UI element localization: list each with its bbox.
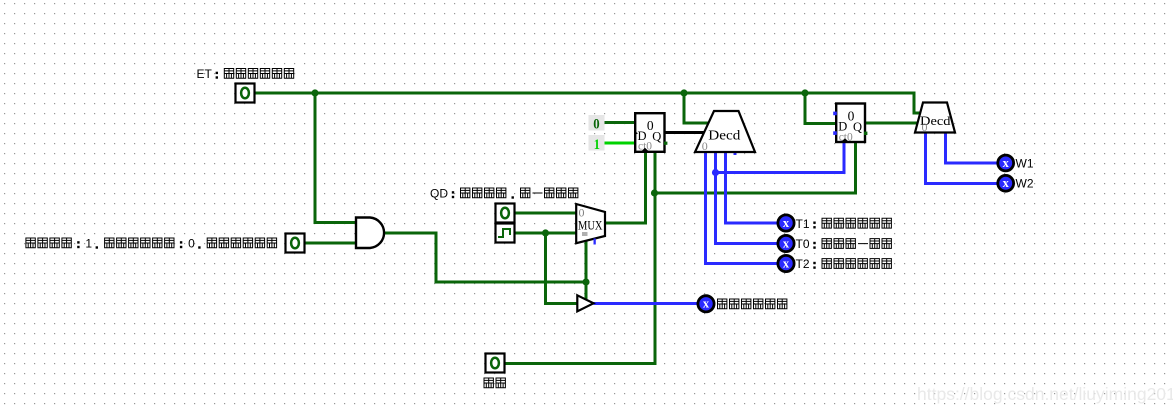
svg-text:T0: T0 [796,237,810,251]
svg-text:W1: W1 [1016,157,1034,171]
output pin T2 [778,255,794,271]
svg-text:x: x [783,256,790,270]
junction: reset rail [651,189,658,196]
svg-text:Q: Q [652,129,661,143]
wire: decoder1 out1 to T0 pin [716,152,778,244]
flip-flop/counter FF2 [833,104,867,144]
wire: decoder2 out1 to W1 pin [946,133,998,164]
junction: decoder1 out1 branch [712,169,719,176]
multiplexer MUX [576,204,605,245]
wire: constant 1 to FF1 [605,142,635,145]
wire: reset rail to FF2 bottom pin [655,143,856,193]
wire: rail down to FF2 D input [805,92,835,124]
svg-text:0: 0 [702,139,708,153]
wire: constant 0 to FF1 [605,121,635,124]
constant 1 [589,135,605,153]
svg-text:QD: QD [430,187,448,201]
junction: rail/AND [311,89,318,96]
decoder Decd1 [695,111,755,153]
svg-text:T1: T1 [796,217,810,231]
label ET [197,67,294,81]
label T1 [796,217,892,231]
svg-text:0: 0 [188,237,195,251]
wire: MUX output up to FF1 clock [604,152,646,223]
svg-text:W2: W2 [1016,177,1034,191]
input pin QD [496,204,515,223]
wire: decoder1 out1 branch to FF2 clock [716,143,845,173]
decoder Decd2 [915,103,955,135]
label T0 [796,237,892,251]
svg-text:x: x [1003,176,1010,190]
tri-state buffer [577,295,593,311]
wire: FF2 Q to decoder2 select [866,121,919,124]
output pin W1 [998,155,1014,171]
wire: AND output to select junction [385,233,586,282]
wire: decoder2 out0 to W2 pin [926,133,998,184]
svg-text:Q: Q [853,120,862,134]
clock generator [496,224,515,243]
junction: rail/decoder1 enable [680,89,687,96]
svg-text:ET: ET [197,67,213,81]
wire: clock to MUX input 1 [515,232,576,235]
decoder1 out3 stub [734,152,737,155]
wire: decoder1 out2 to T1 pin [726,152,778,223]
svg-text:x: x [1003,156,1010,170]
svg-text:https://blog.csdn.net/liuyimin: https://blog.csdn.net/liuyiming2019 [917,384,1173,404]
output pin T0 [778,235,794,251]
junction: clock branch [542,229,549,236]
wire: decoder1 out0 to T2 pin [706,152,778,264]
svg-text:MUX: MUX [578,218,603,232]
svg-text:0: 0 [922,120,928,134]
AND gate U1 [356,218,384,249]
svg-text:x: x [783,236,790,250]
wire: rail down to AND top input [315,92,356,223]
svg-text:Decd: Decd [708,129,740,144]
output pin internal-clock-out [698,296,714,312]
output pin W2 [998,175,1014,191]
junction: select/enable [582,278,589,285]
wire: ET top rail [255,93,920,113]
wire: MUX select / buffer enable vertical [585,241,588,300]
svg-text:x: x [783,216,790,230]
label QD [430,187,578,201]
label reset [484,378,505,388]
output pin T1 [778,215,794,231]
label clock-select [26,237,277,251]
constant 0 [589,115,605,133]
svg-text:0: 0 [593,117,599,133]
input pin ET [236,84,255,103]
label internal-clock-out [718,299,787,309]
junction: rail/FF2 D [801,89,808,96]
svg-text:T2: T2 [796,257,810,271]
wire: rail down to decoder1 enable [684,92,709,124]
wire: reset pin horizontal [505,362,657,365]
input pin clock-select [286,234,305,253]
wire: clock-select pin to AND bottom input [305,242,356,245]
svg-text:1: 1 [594,137,600,153]
label T2 [796,257,892,271]
wire: QD pin to MUX input 0 [515,212,576,215]
svg-text:x: x [703,297,710,311]
svg-text:1: 1 [85,237,92,251]
wire: clock branch down to buffer input [546,233,578,303]
wire: buffer output to clock-out pin [594,302,698,305]
wire: FF1 reset vertical (to reset rail) [654,152,657,364]
flip-flop/counter FF1 [634,113,667,152]
input pin reset [486,354,505,373]
wire: FF1 Q to decoder1 select (bus) [665,131,705,134]
